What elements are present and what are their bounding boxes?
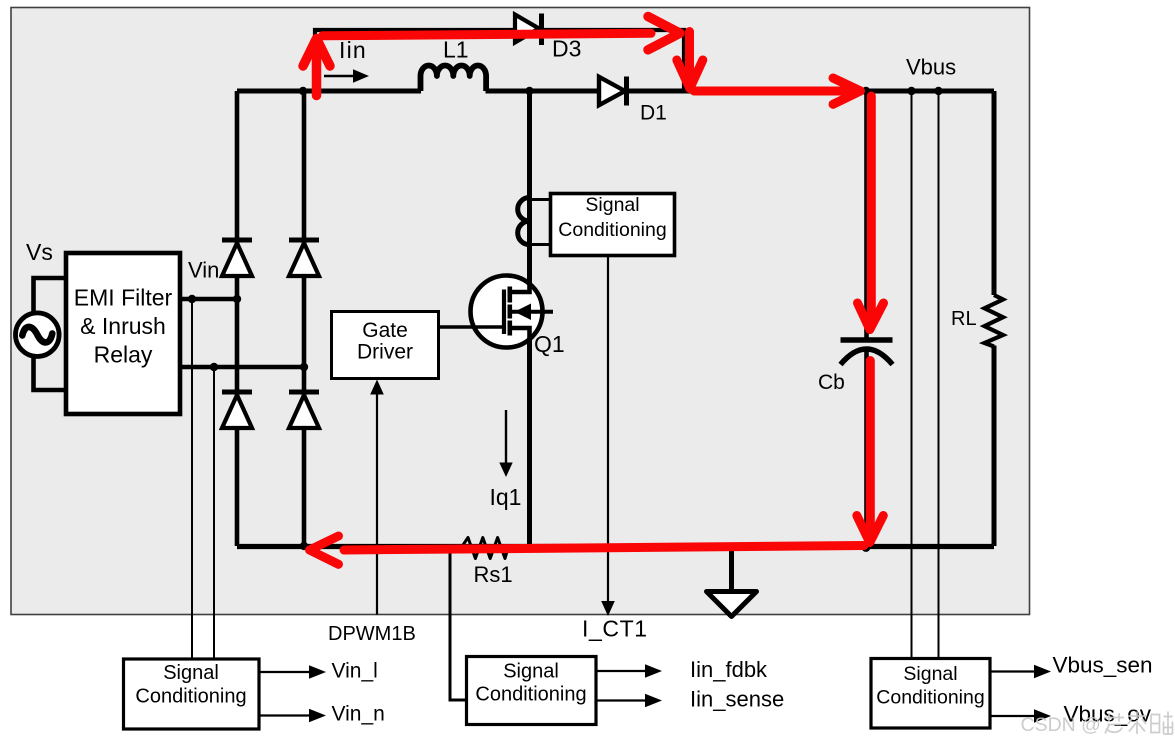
svg-text:I_CT1: I_CT1	[582, 616, 648, 642]
svg-text:Vin_l: Vin_l	[332, 660, 378, 683]
svg-text:D1: D1	[640, 102, 667, 125]
node Vbus tap 2	[934, 87, 942, 95]
wire: bypass branch top	[315, 30, 684, 91]
node Vbus-Cb junction	[862, 87, 870, 95]
node Vin upper bridge	[233, 295, 241, 303]
arrow out Iin_sense	[596, 694, 662, 708]
red current arrow below Cb	[857, 361, 884, 543]
svg-text:Driver: Driver	[357, 341, 413, 364]
wire: Vin lower	[180, 365, 304, 369]
red current arrow bottom return	[310, 536, 865, 564]
arrow out Iin_fdbk	[596, 664, 662, 678]
wire: gate lead	[439, 325, 502, 328]
wire: Vbus sense tap 2	[938, 91, 940, 658]
svg-text:D3: D3	[552, 36, 581, 62]
node Q1 drain junction	[525, 87, 533, 95]
node Vin upper tap	[188, 295, 196, 303]
wire: Cb branch	[864, 91, 869, 546]
node bottom-left junction	[300, 542, 308, 550]
svg-text:Signal: Signal	[163, 662, 219, 684]
wire: RL branch	[992, 91, 997, 546]
wire: Vin upper	[180, 297, 237, 301]
transistor Q1	[471, 273, 554, 349]
wire: main top rail	[237, 89, 994, 94]
arrow out Vbus_sen	[990, 665, 1051, 679]
bridge diode top-right	[289, 240, 319, 276]
node bottom Cb junction	[862, 543, 871, 552]
svg-text:Vbus: Vbus	[906, 55, 956, 80]
signal conditioning box Iin	[467, 657, 597, 725]
arrow out Vbus_ov	[990, 709, 1051, 723]
red current arrow up at Iin	[303, 39, 330, 96]
svg-text:Vs: Vs	[26, 239, 53, 265]
svg-text:Vbus_sen: Vbus_sen	[1053, 653, 1153, 678]
wire: Q1 drain-source branch	[527, 91, 532, 546]
svg-text:Iin_fdbk: Iin_fdbk	[690, 657, 768, 682]
svg-text:L1: L1	[443, 37, 469, 63]
bridge diode top-left	[222, 240, 252, 276]
wire: Vin_l sense tap	[191, 299, 193, 659]
arrow out Vin_n	[259, 709, 326, 723]
svg-text:Signal: Signal	[585, 194, 639, 216]
svg-text:Vin: Vin	[188, 258, 219, 283]
svg-text:Conditioning: Conditioning	[876, 687, 984, 709]
wire: Vs bottom lead	[34, 354, 67, 390]
svg-text:Iin: Iin	[339, 37, 367, 63]
red arrowhead top bypass	[648, 17, 680, 50]
red current arrow down right of D3	[677, 32, 703, 89]
capacitor Cb	[841, 340, 893, 365]
svg-text:EMI Filter: EMI Filter	[74, 285, 173, 311]
svg-text:Iq1: Iq1	[490, 484, 522, 510]
EMI filter box	[66, 253, 180, 414]
node Vin lower tap	[210, 363, 218, 371]
signal conditioning box Vin	[124, 659, 260, 729]
red current path: top bypass line	[323, 33, 652, 36]
bridge diode bottom-left	[222, 392, 252, 428]
svg-text:Relay: Relay	[94, 342, 153, 368]
svg-text:CSDN @: CSDN @	[1021, 714, 1101, 736]
svg-text:Signal: Signal	[903, 663, 957, 685]
wire: bottom return rail	[237, 544, 994, 549]
red current arrow right to Vbus	[694, 78, 861, 104]
current arrow Iin	[324, 69, 369, 83]
svg-text:Vin_n: Vin_n	[332, 703, 385, 726]
bridge diode bottom-right	[289, 392, 319, 428]
wire: Vbus sense tap 1	[911, 91, 913, 658]
inductor L1	[421, 65, 487, 91]
wire: Vin_n sense tap	[213, 367, 215, 659]
diode D1	[599, 77, 627, 106]
svg-text:Conditioning: Conditioning	[135, 686, 246, 708]
svg-text:Rs1: Rs1	[474, 562, 513, 587]
svg-text:Gate: Gate	[362, 319, 408, 342]
wire: Vs top lead	[34, 278, 67, 315]
ground	[707, 546, 757, 617]
wire: bridge left leg	[235, 91, 240, 546]
gate driver box	[332, 312, 439, 379]
signal arrow DPWM1B	[370, 380, 384, 615]
resistor RL	[985, 295, 1004, 347]
arrow out Vin_l	[259, 665, 326, 679]
current arrow Iq1	[499, 410, 512, 477]
node Vin lower bridge	[300, 363, 308, 371]
svg-text:Signal: Signal	[503, 661, 559, 683]
svg-text:Cb: Cb	[818, 371, 845, 394]
signal arrow I_CT1	[601, 256, 615, 616]
svg-text:Q1: Q1	[534, 331, 565, 357]
signal conditioning box Vbus	[871, 659, 990, 729]
svg-text:& Inrush: & Inrush	[80, 313, 166, 339]
diode D3	[515, 14, 542, 46]
svg-text:Conditioning: Conditioning	[475, 684, 586, 706]
current transformer CT1	[518, 198, 551, 245]
background panel	[11, 8, 1030, 615]
wire: Iin sense tap	[450, 548, 466, 700]
AC source Vs	[16, 313, 60, 357]
svg-text:Iin_sense: Iin_sense	[690, 687, 784, 712]
svg-text:DPWM1B: DPWM1B	[328, 623, 416, 645]
svg-text:RL: RL	[951, 308, 977, 330]
svg-text:Conditioning: Conditioning	[558, 219, 666, 241]
node main-bridge junction	[299, 87, 307, 95]
resistor Rs1	[461, 538, 508, 559]
red current arrow down to Cb	[858, 96, 884, 330]
signal conditioning box CT	[551, 194, 675, 256]
wire: bridge right leg	[302, 91, 307, 546]
watermark CSDN	[1021, 712, 1173, 737]
node Vbus tap 1	[907, 87, 915, 95]
